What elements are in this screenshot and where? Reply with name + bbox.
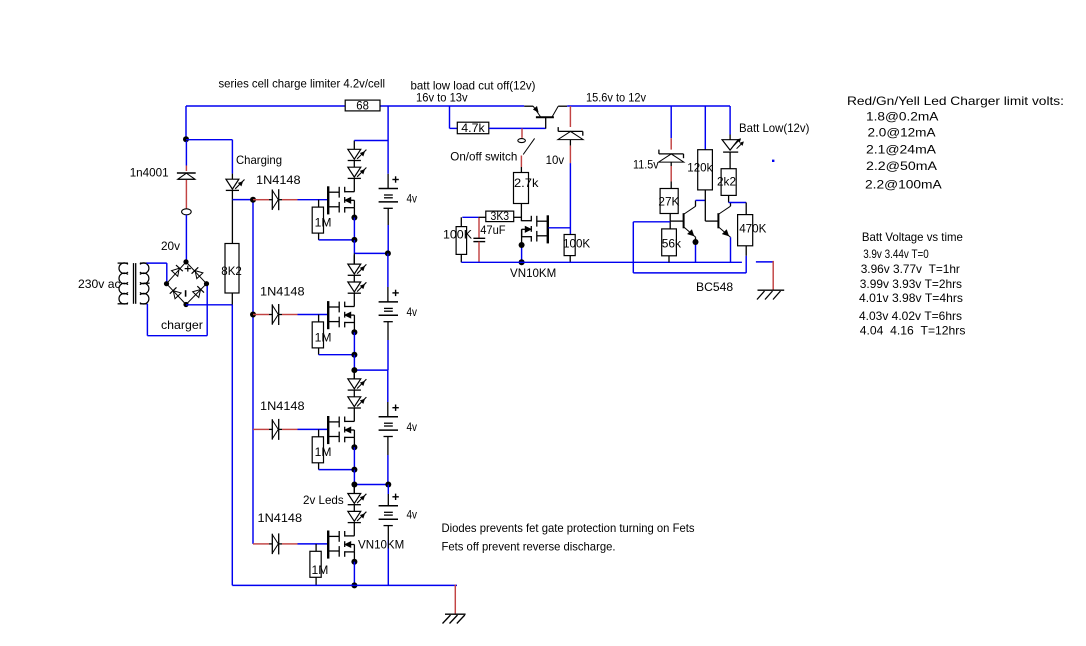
label 16v to 13v (416, 91, 468, 105)
label diodes note (442, 521, 695, 535)
label 27K (658, 195, 679, 209)
wire q2 collector (730, 203, 732, 207)
wire zener 10v bottom (569, 140, 571, 235)
node junction3 left (351, 482, 357, 488)
wire junction3 to led4 (353, 485, 355, 494)
label 230v ac (78, 277, 121, 291)
led Batt Low (722, 139, 744, 153)
led top cell1 (348, 149, 367, 160)
svg-text:1M: 1M (315, 216, 332, 230)
led chain cell2 (353, 255, 355, 264)
wire base feedback (633, 222, 670, 273)
wire top charge rail (186, 106, 524, 139)
svg-text:11.5v: 11.5v (633, 158, 659, 172)
label 1N4148 cell1 (256, 173, 301, 187)
label Batt Low (739, 121, 809, 135)
svg-text:2.7k: 2.7k (514, 176, 539, 190)
led bottom cell4 (348, 511, 367, 522)
wire diode to fuse (185, 180, 187, 209)
svg-text:3.99v 3.93v T=2hrs: 3.99v 3.93v T=2hrs (860, 277, 962, 291)
node junction2 (351, 367, 357, 373)
label 2.0mA (868, 126, 936, 140)
wire source down cell1 (353, 208, 355, 240)
resistor 1M cell2 (312, 315, 323, 355)
svg-text:1M: 1M (315, 330, 332, 344)
label 2.1mA (866, 143, 936, 157)
svg-text:Red/Gn/Yell Led Charger limit: Red/Gn/Yell Led Charger limit volts: (847, 94, 1064, 108)
wire junction2 (354, 355, 387, 370)
svg-text:470K: 470K (739, 222, 766, 236)
svg-text:15.6v to 12v: 15.6v to 12v (586, 91, 646, 105)
led top cell2 (348, 264, 367, 275)
wire secondary bottom to bridge (147, 284, 207, 336)
transistor mosfet cell2 (327, 301, 354, 329)
svg-text:1M: 1M (312, 563, 329, 577)
diode 1N4148 cell2 (269, 304, 282, 325)
label batt voltage row4 (859, 291, 963, 305)
wire junction3 to battery4 (387, 485, 389, 506)
label 1n4001 (130, 165, 169, 179)
svg-text:1N4148: 1N4148 (258, 511, 303, 525)
diode 1N4148 cell1 (269, 189, 282, 210)
wire batt low branch (729, 106, 731, 140)
label 1N4148 cell4 (258, 511, 303, 525)
label charger limit volts (847, 94, 1064, 108)
svg-text:8K2: 8K2 (221, 264, 242, 278)
svg-text:1.8@0.2mA: 1.8@0.2mA (866, 110, 938, 124)
node stray dot (772, 160, 774, 162)
label VN10KM cell4 (358, 538, 404, 552)
wire red gate feed cell1 (253, 199, 269, 201)
svg-text:27K: 27K (658, 195, 679, 209)
svg-text:4v: 4v (407, 420, 418, 434)
wire cell1 positive (354, 106, 388, 189)
node source cell1 (351, 215, 357, 221)
svg-text:4v: 4v (407, 192, 418, 206)
label 2.2 100mA (865, 178, 942, 192)
wire red gate feed cell2 (253, 314, 269, 316)
label 20v (161, 239, 180, 253)
wire diode to gate cell2 (282, 314, 328, 316)
wire zener 10v top (569, 106, 571, 127)
resistor 120k (698, 150, 713, 190)
svg-text:2.2@100mA: 2.2@100mA (865, 178, 942, 192)
resistor 2k2 (721, 169, 736, 196)
svg-text:230v ac: 230v ac (78, 277, 121, 291)
wire switch top (521, 128, 523, 138)
wire junction1 (354, 240, 388, 254)
wire zener 11.5 top (670, 106, 672, 150)
svg-text:Charging: Charging (236, 153, 282, 167)
transistor pnp cutoff (524, 106, 567, 128)
svg-text:4.04 4.16 T=12hrs: 4.04 4.16 T=12hrs (860, 324, 966, 338)
wire negative rail (231, 305, 233, 586)
label 11.5v (633, 158, 659, 172)
svg-text:16v to 13v: 16v to 13v (416, 91, 468, 105)
wire ground stub (454, 585, 456, 614)
transistor BC548 q2 (718, 206, 730, 237)
battery 4v cell2 (379, 290, 399, 322)
wire fuse to bridge (185, 215, 187, 262)
svg-text:Batt Low(12v): Batt Low(12v) (739, 121, 809, 135)
label charger (161, 318, 203, 332)
wire q1 emitter (695, 237, 697, 262)
label 56k (662, 236, 682, 250)
svg-text:4v: 4v (407, 305, 418, 319)
svg-text:BC548: BC548 (696, 280, 733, 294)
wire 120k to q2 base (705, 190, 718, 221)
wire cutoff bottom (461, 261, 742, 263)
wire battery4 to ground rail (387, 526, 389, 586)
node junction1 (385, 250, 391, 256)
wire diode to gate cell3 (282, 428, 328, 430)
label On/off switch (450, 149, 517, 163)
diode zener 10v (558, 127, 583, 140)
resistor 100k left (456, 217, 467, 262)
svg-text:2.0@12mA: 2.0@12mA (868, 126, 936, 140)
wire source down cell2 (353, 323, 355, 355)
wire led to drain cell1 (353, 178, 355, 192)
label 4v cell3 (407, 420, 418, 434)
wire 120k top (704, 106, 706, 150)
transistor mosfet cell4 (327, 531, 354, 559)
wire to charging led (231, 140, 233, 180)
wire 2k2 to q2 collector (729, 195, 747, 202)
wire junction3 (354, 470, 388, 485)
led chain cell4 (353, 485, 355, 494)
label Batt Voltage vs time (862, 230, 963, 244)
label 100K right (563, 237, 590, 251)
bridge rectifier (167, 262, 207, 305)
svg-text:4v: 4v (407, 508, 418, 522)
label 10v (546, 153, 565, 167)
wire cutoff source (521, 229, 523, 262)
wire bottom ground (232, 584, 457, 586)
svg-text:2k2: 2k2 (717, 174, 736, 188)
battery 4v cell1 (379, 176, 399, 208)
wire led to 2k2 (729, 152, 731, 169)
wire q2 emitter (730, 237, 732, 262)
svg-text:1N4148: 1N4148 (260, 285, 305, 299)
transistor mosfet VN10KM cutoff (522, 215, 549, 243)
label 4v cell4 (407, 508, 418, 522)
led bottom cell2 (348, 282, 367, 293)
led bottom cell3 (348, 397, 367, 408)
battery 4v cell4 (379, 494, 399, 526)
transformer T1 (118, 263, 150, 304)
svg-text:charger: charger (161, 318, 203, 332)
diode 1N4148 cell3 (269, 419, 282, 440)
label 4v cell2 (407, 305, 418, 319)
wire zener to 27K (670, 162, 672, 188)
diode 1N4148 cell4 (269, 533, 282, 554)
label 2v Leds (303, 493, 344, 507)
wire battery3 to junction3 (387, 437, 389, 485)
wire feedback bottom (633, 256, 746, 273)
svg-text:VN10KM: VN10KM (510, 266, 556, 280)
resistor 1M cell1 (312, 200, 323, 240)
node source wire cell2 (351, 352, 357, 358)
wire charging led to resistor (231, 190, 233, 243)
resistor 4.7k (457, 121, 489, 135)
label fets note (442, 540, 616, 554)
svg-text:47uF: 47uF (480, 223, 505, 237)
wire junction1 to battery2 (387, 253, 389, 302)
wire anode feed (185, 141, 187, 171)
wire 27K to base node (669, 214, 671, 229)
node cutoff source rail (519, 259, 525, 265)
label 1N4148 cell3 (260, 399, 305, 413)
label 47uF (480, 223, 505, 237)
node source cell2 (351, 329, 357, 335)
node charger positive (183, 136, 232, 142)
label 15.6v to 12v (586, 91, 646, 105)
node bridge corners (164, 259, 209, 307)
label 120k (687, 161, 713, 175)
led chain cell3 (353, 370, 355, 379)
fuse link (182, 209, 192, 215)
svg-text:1N4148: 1N4148 (256, 173, 301, 187)
diode 1n4001 (177, 173, 196, 179)
led link cell3 (353, 390, 355, 397)
wire 4.7k to base (489, 127, 546, 129)
transistor mosfet cell1 (327, 186, 354, 214)
resistor 27K (660, 189, 678, 214)
node cell4 source to rail (351, 582, 357, 588)
label Charging (236, 153, 282, 167)
svg-text:2.1@24mA: 2.1@24mA (866, 143, 936, 157)
wire battery2 to junction2 (387, 322, 389, 370)
label 4v cell1 (407, 192, 418, 206)
svg-text:1M: 1M (315, 445, 332, 459)
node source wire cell3 (351, 467, 357, 473)
wire source down cell3 (353, 437, 355, 469)
resistor 100K right (564, 235, 575, 263)
node source wire cell1 (351, 237, 357, 243)
label batt low load cut off (411, 79, 536, 93)
label BC548 (696, 280, 733, 294)
node junction3 right (385, 482, 391, 488)
svg-text:56k: 56k (662, 236, 682, 250)
label 470K (739, 222, 766, 236)
label batt voltage row3 (860, 277, 962, 291)
svg-text:100K: 100K (443, 228, 472, 242)
resistor 8K2 (225, 244, 239, 294)
resistor 1M cell4 (310, 544, 321, 586)
wire junction2 to led3 (353, 370, 355, 379)
capacitor 47uF (473, 218, 485, 262)
svg-text:68: 68 (356, 99, 369, 113)
svg-text:On/off switch: On/off switch (450, 149, 517, 163)
wire source down cell4 (353, 552, 355, 586)
label 3K3 (491, 209, 510, 223)
resistor 470K (738, 203, 753, 256)
wire diode to gate cell1 (282, 199, 328, 201)
label batt voltage row2 (861, 262, 960, 276)
label 1M cell4 (312, 563, 329, 577)
label 2.7k (514, 176, 539, 190)
node source cell4 (351, 559, 357, 565)
led link cell4 (353, 504, 355, 511)
svg-text:1N4148: 1N4148 (260, 399, 305, 413)
node gate feed cell2 (250, 312, 256, 318)
wire 1M to source cell1 (319, 239, 355, 241)
svg-text:Fets off prevent reverse disch: Fets off prevent reverse discharge. (442, 540, 616, 554)
svg-text:100K: 100K (563, 237, 590, 251)
node source cell3 (351, 444, 357, 450)
diode zener 11.5v (659, 150, 684, 163)
wire q1 base (670, 220, 683, 222)
wire secondary top to bridge (147, 263, 167, 284)
label VN10KM cutoff (510, 266, 556, 280)
wire led to drain cell4 (353, 522, 355, 536)
led top cell4 (348, 494, 367, 505)
led chain cell1 (353, 141, 355, 150)
resistor 3K3 (478, 211, 521, 222)
wire cutoff gate to zener node (548, 227, 570, 229)
wire led to drain cell2 (353, 293, 355, 307)
wire 100k node (462, 216, 478, 218)
wire red gate feed cell3 (253, 428, 269, 430)
node gate feed cell1 (250, 197, 256, 203)
transistor mosfet cell3 (327, 416, 354, 444)
wire 1M to source cell3 (319, 469, 355, 471)
svg-text:4.7k: 4.7k (461, 121, 485, 135)
resistor 2.7k (514, 173, 529, 204)
label batt voltage row1 (863, 247, 929, 261)
label 1.8mA (866, 110, 938, 124)
wire junction1 to led2 (353, 253, 355, 264)
svg-text:series cell charge limiter 4.2: series cell charge limiter 4.2v/cell (219, 77, 386, 91)
svg-text:3.96v 3.77v T=1hr: 3.96v 3.77v T=1hr (861, 262, 960, 276)
wire led to drain cell3 (353, 408, 355, 422)
wire 1M to source cell2 (319, 354, 355, 356)
label 8K2 (221, 264, 242, 278)
label batt voltage row5 (859, 309, 962, 323)
svg-text:2.2@50mA: 2.2@50mA (866, 159, 937, 173)
label series cell charge limiter (219, 77, 386, 91)
wire red gate feed cell4 (253, 543, 269, 545)
label 1M cell2 (315, 330, 332, 344)
label 1M cell1 (315, 216, 332, 230)
wire battery1 to junction1 (387, 208, 389, 253)
resistor 56k (662, 229, 677, 262)
svg-text:4.03v 4.02v T=6hrs: 4.03v 4.02v T=6hrs (859, 309, 962, 323)
wire 8K2 to negative rail (231, 293, 233, 305)
svg-text:VN10KM: VN10KM (358, 538, 404, 552)
svg-text:Batt Voltage vs time: Batt Voltage vs time (862, 230, 963, 244)
led top cell3 (348, 379, 367, 390)
node cutoff source (519, 242, 525, 248)
svg-text:20v: 20v (161, 239, 180, 253)
svg-text:10v: 10v (546, 153, 565, 167)
led link cell1 (353, 160, 355, 167)
svg-text:3K3: 3K3 (491, 209, 510, 223)
transistor BC548 q1 (684, 206, 696, 237)
wire q1 collector (696, 200, 706, 206)
label 2k2 (717, 174, 736, 188)
svg-text:Diodes prevents fet gate prote: Diodes prevents fet gate protection turn… (442, 521, 695, 535)
wire 2.7k to drain (520, 204, 522, 222)
wire ground2 stub (756, 261, 773, 290)
ground main (443, 614, 466, 623)
switch on-off (518, 138, 535, 154)
resistor 1M cell3 (312, 429, 323, 469)
svg-text:4.01v 3.98v T=4hrs: 4.01v 3.98v T=4hrs (859, 291, 963, 305)
wire junction2 to battery3 (387, 370, 389, 417)
label 1M cell3 (315, 445, 332, 459)
svg-text:120k: 120k (687, 161, 713, 175)
label 100k left (443, 228, 472, 242)
battery 4v cell3 (379, 405, 399, 437)
label 1N4148 cell2 (260, 285, 305, 299)
node q1 emitter (693, 239, 699, 245)
label 2.2 50mA (866, 159, 937, 173)
resistor 68 (345, 99, 380, 113)
ground right (757, 290, 784, 299)
svg-text:3.9v 3.44v T=0: 3.9v 3.44v T=0 (863, 247, 929, 261)
wire diode to gate cell4 (282, 543, 328, 545)
wire bridge negative output (186, 304, 232, 306)
wire collector rail (567, 105, 730, 107)
wire gate feed rail (232, 200, 253, 544)
label batt voltage row6 (860, 324, 966, 338)
led link cell2 (353, 275, 355, 282)
svg-text:1n4001: 1n4001 (130, 165, 169, 179)
led bottom cell1 (348, 167, 367, 178)
wire rail to 4.7k (450, 106, 458, 128)
svg-text:2v Leds: 2v Leds (303, 493, 344, 507)
wire switch to 2.7k (520, 156, 522, 173)
led Charging (226, 179, 245, 190)
